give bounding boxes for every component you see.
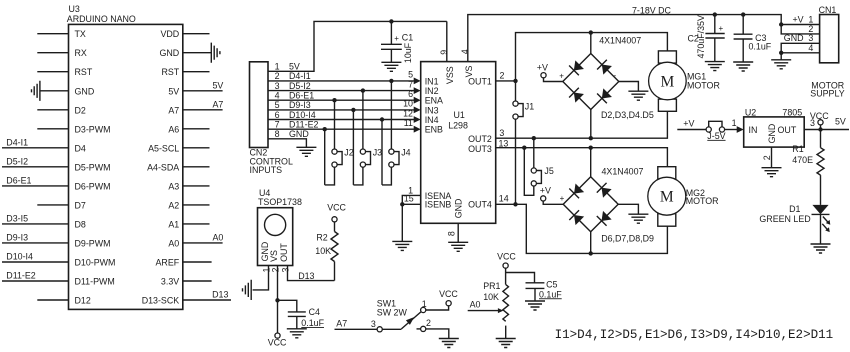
svg-text:D4: D4: [75, 143, 86, 153]
wire VCC stub: [820, 125, 822, 130]
svg-text:5V: 5V: [168, 86, 179, 96]
node VS/C4: [275, 298, 279, 302]
wire net D6-E1: [2, 185, 69, 187]
svg-text:U1: U1: [454, 110, 465, 120]
ground at U3 GND pin (sideways left): [32, 81, 40, 101]
pin A3 stub: [183, 185, 210, 187]
svg-text:J-5V: J-5V: [707, 131, 725, 141]
U2 input arrow: [737, 126, 744, 133]
node C2 top: [713, 12, 717, 16]
svg-text:4: 4: [808, 43, 813, 53]
wire ENB row: [268, 128, 414, 130]
pin D2 stub: [37, 109, 68, 111]
svg-text:10: 10: [403, 99, 413, 109]
ground at U4 pin1 (sideways left): [243, 280, 252, 300]
wire J-5V to U2: [725, 129, 738, 131]
pin AREF stub: [183, 261, 212, 263]
svg-text:M: M: [661, 74, 675, 91]
LED D1: [812, 205, 831, 232]
SW1 lever: [401, 312, 421, 329]
diode D4 (bottom-left): [569, 88, 585, 104]
svg-text:D5-I2: D5-I2: [6, 156, 28, 166]
wire CN1 ground drop: [780, 53, 782, 60]
wire C5 to ground: [534, 288, 536, 301]
svg-text:D12: D12: [75, 296, 91, 306]
wire IN2 to J3: [362, 91, 364, 149]
wire bridge2 top riser: [590, 148, 592, 177]
svg-text:VCC: VCC: [810, 111, 829, 121]
jumper J-5V: [706, 121, 725, 132]
svg-text:3.3V: 3.3V: [161, 277, 179, 287]
node C3 top: [741, 12, 745, 16]
diode D9 (bottom-right): [597, 210, 613, 226]
jumper J1: [513, 101, 523, 119]
pin A4-SDA stub: [183, 166, 210, 168]
svg-text:I1>D4,I2>D5,E1>D6,I3>D9,I4>D10: I1>D4,I2>D5,E1>D6,I3>D9,I4>D10,E2>D11: [555, 328, 834, 342]
svg-text:PR1: PR1: [483, 281, 500, 291]
svg-text:4X1N4007: 4X1N4007: [602, 166, 644, 176]
svg-text:A5-SCL: A5-SCL: [148, 143, 179, 153]
svg-text:RST: RST: [75, 67, 93, 77]
wire net D11-E2: [2, 280, 69, 282]
svg-text:A0: A0: [470, 300, 481, 310]
wire OUT1 to J1: [515, 81, 517, 101]
wire R2 bottom: [334, 262, 336, 281]
node OUT2/bridge1 bottom: [589, 136, 593, 140]
svg-text:J2: J2: [344, 147, 353, 157]
svg-text:10K: 10K: [315, 246, 331, 256]
pin 3.3V stub: [183, 280, 212, 282]
pin RX stub: [37, 52, 68, 54]
svg-text:-: -: [614, 71, 617, 80]
wire VCC to R2: [334, 222, 336, 232]
ground at C1: [381, 62, 401, 71]
svg-text:1: 1: [422, 299, 427, 309]
wire net D13: [183, 299, 231, 301]
svg-text:R2: R2: [316, 232, 327, 242]
svg-text:3: 3: [371, 319, 376, 329]
svg-text:VCC: VCC: [497, 252, 516, 262]
svg-text:D10-I4: D10-I4: [6, 252, 33, 262]
svg-text:TSOP1738: TSOP1738: [258, 197, 302, 207]
svg-text:D5-PWM: D5-PWM: [75, 162, 111, 172]
wire IN4 down: [381, 120, 383, 185]
jumper J2: [332, 149, 342, 167]
pin VDD stub right: [183, 33, 210, 35]
svg-text:8: 8: [446, 231, 456, 236]
svg-text:C5: C5: [546, 280, 557, 290]
wire OUT1 riser to motor rail: [516, 33, 668, 81]
node IN4/J4: [380, 117, 384, 121]
svg-text:GND: GND: [454, 199, 464, 219]
wire J1 bottom to OUT4: [515, 119, 517, 204]
wire net A0: [183, 242, 223, 244]
wire A7 to SW1: [335, 328, 378, 330]
svg-text:J1: J1: [525, 101, 534, 111]
svg-text:A6: A6: [168, 124, 179, 134]
node IN3/J3: [351, 108, 355, 112]
wire bridge2 bottom drop: [590, 232, 592, 254]
svg-text:ARDUINO NANO: ARDUINO NANO: [67, 14, 136, 24]
wire ISENB: [402, 203, 420, 205]
svg-text:5V: 5V: [213, 80, 224, 90]
svg-text:ENB: ENB: [425, 125, 443, 135]
capacitor C3 wire top: [742, 15, 744, 35]
wire C4 to ground: [296, 316, 298, 328]
ground at C3: [733, 62, 753, 71]
node ISEN junction: [400, 202, 404, 206]
ground at CN2 pin8: [296, 147, 316, 156]
svg-text:7: 7: [408, 79, 413, 89]
wire CN2 pin1 5V up to rail: [268, 21, 447, 71]
svg-text:M: M: [660, 189, 674, 206]
wire SW1 common: [382, 328, 401, 330]
wire VCC to PR1: [505, 268, 507, 284]
wire R1 to D1: [820, 175, 822, 205]
svg-text:A7: A7: [168, 105, 179, 115]
svg-text:SUPPLY: SUPPLY: [810, 89, 844, 99]
ground at bridge1: [628, 91, 648, 100]
pin RST stub right: [183, 71, 210, 73]
wire IN3 row: [268, 109, 414, 111]
svg-text:+V: +V: [793, 15, 804, 25]
svg-text:8: 8: [275, 129, 280, 139]
PR1 wiper arrow: [498, 308, 504, 313]
svg-text:5: 5: [408, 70, 413, 80]
node IN2/J3: [361, 88, 365, 92]
wire branch to C5: [506, 273, 535, 283]
svg-text:IN3: IN3: [425, 105, 439, 115]
svg-text:D9-I3: D9-I3: [6, 232, 28, 242]
svg-text:5V: 5V: [289, 62, 300, 72]
wire J4 bottom to IN4 column: [382, 167, 391, 185]
wire U4 pin3 OUT / D13 net: [288, 266, 335, 281]
VCC terminal above PR1: [503, 263, 508, 268]
ground at bridge2: [628, 214, 648, 223]
wire U2 GND pin2: [771, 147, 773, 168]
svg-text:OUT1: OUT1: [468, 76, 492, 86]
svg-text:D4-I1: D4-I1: [289, 71, 311, 81]
node OUT1 junction: [513, 79, 517, 83]
wire OUT2 down to J5: [533, 138, 535, 168]
diode D6 (top-left): [569, 183, 585, 199]
svg-text:7805: 7805: [782, 108, 802, 118]
svg-text:OUT4: OUT4: [468, 200, 492, 210]
svg-text:A7: A7: [213, 99, 224, 109]
wire SW1 pin1 to VCC: [426, 306, 449, 310]
wire IN3 down: [352, 110, 354, 185]
node bridge2 bottom: [589, 251, 593, 255]
svg-text:D6-E1: D6-E1: [289, 91, 314, 101]
svg-text:2: 2: [426, 318, 431, 328]
VCC terminal at SW1: [446, 301, 451, 306]
resistor R1: [817, 148, 824, 175]
svg-text:R1: R1: [792, 144, 803, 154]
wire GND left: [40, 90, 69, 92]
node rail1/C1 junction: [389, 19, 393, 23]
svg-text:A1: A1: [168, 219, 179, 229]
node CN1 pin1: [779, 22, 783, 26]
capacitor C1 plates: [381, 44, 402, 49]
svg-text:6: 6: [275, 110, 280, 120]
pin A6 stub: [183, 128, 210, 130]
wire to C4: [278, 300, 297, 312]
svg-text:D3-I5: D3-I5: [6, 213, 28, 223]
pin A2 stub: [183, 204, 210, 206]
pin A5-SCL stub: [183, 147, 210, 149]
svg-text:2: 2: [500, 70, 505, 80]
svg-text:D6-E1: D6-E1: [6, 175, 31, 185]
svg-text:CN1: CN1: [819, 5, 837, 15]
svg-text:0.1uF: 0.1uF: [749, 41, 772, 51]
wire CN1 pin4: [781, 52, 819, 54]
capacitor C2 wire top: [714, 15, 716, 34]
wire CN2 GND pin8: [268, 139, 306, 148]
svg-text:J4: J4: [401, 147, 410, 157]
wire PR1 to ground: [505, 326, 507, 339]
svg-text:10K: 10K: [483, 292, 499, 302]
potentiometer PR1: [503, 285, 509, 322]
svg-text:D13-SCK: D13-SCK: [142, 296, 180, 306]
+V terminal bridge1: [541, 73, 546, 78]
svg-text:AREF: AREF: [156, 258, 180, 268]
svg-text:7: 7: [275, 120, 280, 130]
svg-text:VS: VS: [269, 250, 279, 262]
wire CN1 pin1: [781, 24, 819, 26]
svg-text:+V: +V: [537, 63, 548, 73]
wire GND right: [183, 52, 212, 54]
svg-text:VDD: VDD: [160, 29, 179, 39]
svg-text:+: +: [560, 194, 565, 203]
svg-text:J3: J3: [373, 147, 382, 157]
svg-text:MOTOR: MOTOR: [686, 196, 719, 206]
wire U1 GND pin8: [457, 223, 459, 242]
svg-text:C4: C4: [309, 307, 320, 317]
wire SW1 pin2 to ground: [426, 329, 449, 339]
U3 left pin names: [75, 29, 116, 305]
svg-text:1: 1: [275, 62, 280, 72]
wire bridge1 top drop: [590, 33, 592, 54]
wire net D3-I5: [2, 223, 69, 225]
connector CN2 body: [250, 62, 269, 148]
node CN1 pin4: [779, 51, 783, 55]
svg-text:D10-I4: D10-I4: [289, 110, 316, 120]
pin TX stub: [37, 33, 68, 35]
wire net D10-I4: [2, 261, 69, 263]
pin D3-PWM stub: [37, 128, 68, 130]
svg-text:OUT: OUT: [778, 125, 797, 135]
svg-text:1: 1: [732, 118, 737, 128]
svg-text:GND: GND: [784, 33, 804, 43]
diode D8 (bottom-left): [569, 210, 585, 226]
SW1 pin2 terminal: [421, 326, 426, 331]
svg-text:D11-E2: D11-E2: [289, 120, 318, 130]
svg-text:SW 2W: SW 2W: [377, 307, 408, 317]
svg-text:GND: GND: [767, 124, 777, 144]
svg-text:RST: RST: [161, 67, 179, 77]
+V terminal bridge2: [541, 196, 546, 201]
ground at C2: [705, 62, 725, 71]
bridge2 diamond: [563, 177, 618, 232]
SW1 lever arrow: [406, 317, 414, 325]
bridge1 diamond: [563, 54, 619, 110]
capacitor C4 plates: [288, 312, 306, 317]
svg-text:5: 5: [275, 100, 280, 110]
svg-text:VCC: VCC: [439, 289, 458, 299]
svg-text:3: 3: [808, 33, 813, 43]
svg-text:D10-PWM: D10-PWM: [75, 258, 116, 268]
pin D7 stub: [37, 204, 68, 206]
svg-text:0.1uF: 0.1uF: [539, 289, 562, 299]
svg-text:6: 6: [408, 89, 413, 99]
capacitor C3 plates: [734, 34, 753, 39]
svg-text:2: 2: [270, 267, 280, 272]
node ENA/J2: [332, 98, 336, 102]
wire net D4-I1: [2, 147, 69, 149]
L298 input pin numbers: [403, 70, 413, 128]
node ENB/J2: [323, 127, 327, 131]
ground at U1 pin8: [448, 242, 468, 251]
capacitor C5 plates: [526, 283, 545, 289]
wire bridge1 bottom drop: [590, 110, 592, 139]
node OUT3/J5: [522, 146, 526, 150]
svg-text:A2: A2: [168, 200, 179, 210]
wire C2 bottom: [714, 38, 716, 62]
diode D2 (top-left): [569, 60, 585, 76]
wire IN1 row: [268, 80, 414, 82]
svg-text:4X1N4007: 4X1N4007: [599, 36, 641, 46]
ground at U2: [762, 168, 782, 177]
svg-text:5V: 5V: [835, 117, 846, 127]
svg-text:A4-SDA: A4-SDA: [147, 162, 179, 172]
svg-text:IN: IN: [749, 125, 758, 135]
svg-text:4: 4: [275, 91, 280, 101]
wire net D9-I3: [2, 242, 69, 244]
ground at PR1: [496, 339, 516, 348]
svg-text:U2: U2: [745, 108, 756, 118]
ground at ISEN: [392, 241, 412, 250]
wire net A7: [183, 109, 223, 111]
node OUT4/J1: [513, 202, 517, 206]
U1 input pin names: [425, 76, 443, 134]
svg-text:+V: +V: [540, 186, 551, 196]
svg-text:D3-PWM: D3-PWM: [75, 124, 111, 134]
wire OUT2 row to motor1 bottom: [496, 111, 668, 138]
wire +V to bridge1 left: [544, 78, 563, 82]
ground at C5: [525, 301, 545, 310]
svg-text:D6,D7,D8,D9: D6,D7,D8,D9: [601, 234, 654, 244]
svg-text:GND: GND: [159, 48, 179, 58]
svg-text:IN4: IN4: [425, 115, 439, 125]
svg-text:D8: D8: [75, 219, 86, 229]
CN2 pin numbers 1-8: [275, 62, 280, 140]
node OUT3/bridge2 top: [589, 146, 593, 150]
wire CN1 pin1-pin2 link: [781, 25, 819, 34]
svg-text:3: 3: [280, 267, 290, 272]
svg-text:D2,D3,D4.D5: D2,D3,D4.D5: [601, 110, 654, 120]
svg-text:IN2: IN2: [425, 86, 439, 96]
svg-text:L298: L298: [448, 120, 468, 130]
svg-text:2: 2: [762, 155, 772, 160]
svg-text:D11-PWM: D11-PWM: [75, 277, 115, 287]
SW1 pin3 terminal: [377, 327, 382, 332]
svg-text:470E: 470E: [792, 155, 813, 165]
node bridge1 top: [589, 30, 593, 34]
svg-text:C1: C1: [402, 33, 413, 43]
node IN1/J4: [389, 79, 393, 83]
ground at CN1: [771, 60, 791, 69]
svg-text:INPUTS: INPUTS: [250, 165, 283, 175]
motor MG1 symbol: [649, 51, 687, 111]
svg-text:0.1uF: 0.1uF: [301, 318, 324, 328]
wire OUT1: [496, 80, 516, 82]
svg-text:OUT: OUT: [279, 243, 289, 262]
svg-text:VCC: VCC: [268, 337, 287, 347]
CN2 net name labels: [289, 62, 318, 140]
wire bridge1 right to ground: [619, 82, 639, 92]
wire C1 bottom: [390, 49, 392, 62]
svg-text:A0: A0: [213, 232, 224, 242]
svg-text:OUT2: OUT2: [468, 134, 492, 144]
wire OUT4 to bottom rail: [496, 204, 668, 253]
svg-text:D11-E2: D11-E2: [6, 271, 35, 281]
svg-text:TX: TX: [75, 29, 86, 39]
wire J2 bottom to ENB column: [325, 167, 335, 185]
wire D1 to ground: [820, 214, 822, 244]
wire ENA row: [268, 99, 414, 101]
svg-text:470uF/35V: 470uF/35V: [696, 15, 706, 59]
wire net 5V: [183, 90, 223, 92]
svg-text:J5: J5: [544, 166, 553, 176]
wire U2 OUT to 5V: [804, 129, 849, 131]
svg-text:GREEN LED: GREEN LED: [759, 214, 810, 224]
svg-text:VSS: VSS: [445, 66, 455, 84]
svg-text:D4-I1: D4-I1: [6, 137, 28, 147]
svg-text:IN1: IN1: [425, 76, 439, 86]
svg-text:D2: D2: [75, 105, 86, 115]
wire net D5-I2: [2, 166, 69, 168]
wire VSS drop into L298: [446, 21, 448, 61]
SW1 pin1 terminal: [421, 307, 426, 312]
diode D5 (bottom-right): [597, 88, 613, 104]
svg-text:ENA: ENA: [425, 96, 443, 106]
wire +V input: [677, 129, 706, 131]
jumper J3: [360, 149, 370, 167]
pin RST stub: [37, 71, 68, 73]
wire C1 top: [390, 21, 392, 44]
svg-text:GND: GND: [75, 86, 95, 96]
U3 right pin names: [142, 29, 180, 305]
svg-text:+: +: [559, 71, 564, 80]
svg-text:14: 14: [499, 194, 509, 204]
wire IN2 row: [268, 90, 414, 92]
motor MG2 symbol: [648, 167, 686, 227]
wire J5 bottom to OUT3: [524, 148, 534, 196]
wire IN1 to J4: [390, 81, 392, 149]
wire ENB down: [324, 129, 326, 185]
svg-text:GND: GND: [289, 129, 309, 139]
node OUT2/J5: [532, 136, 536, 140]
svg-text:D5-I2: D5-I2: [289, 81, 311, 91]
svg-text:ISENB: ISENB: [425, 200, 452, 210]
svg-text:D9-PWM: D9-PWM: [75, 238, 111, 248]
svg-text:D6-PWM: D6-PWM: [75, 181, 111, 191]
svg-text:13: 13: [499, 138, 509, 148]
svg-text:+: +: [719, 24, 724, 33]
wire VCC to R1: [820, 130, 822, 148]
svg-text:2: 2: [275, 71, 280, 81]
diode D7 (top-right): [597, 183, 613, 199]
